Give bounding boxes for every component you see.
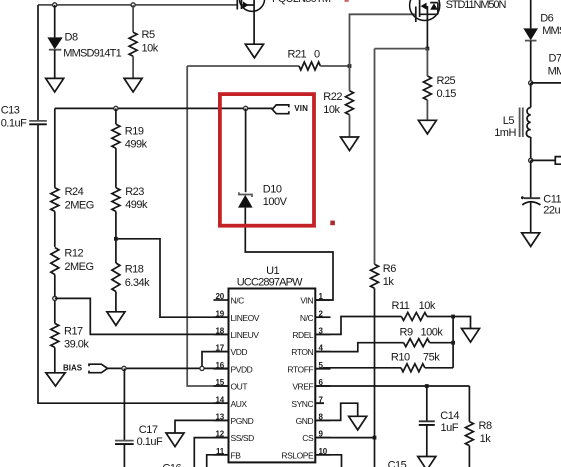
resistor R11 [392,300,436,321]
svg-text:19: 19 [216,309,225,318]
svg-text:D10: D10 [263,183,282,195]
node R11 right [451,315,455,319]
node output [529,158,533,162]
label Q1 (clipped) [272,0,331,5]
output tag (clipped) [555,157,561,165]
resistor R6 [371,263,397,288]
wire R22 to ground [349,115,351,137]
wire R19-R23 [115,148,117,188]
wire OUT to R21 [187,65,299,67]
wire R5 to ground [132,56,134,78]
svg-text:R9: R9 [400,326,413,338]
svg-text:C13: C13 [1,105,20,117]
svg-text:D8: D8 [65,31,78,43]
node D10 top [244,106,248,110]
svg-text:RSLOPE: RSLOPE [281,450,314,460]
wire R8 drop [468,386,470,422]
wire R21 to node [320,65,349,67]
wire R5 drop [132,5,134,32]
svg-text:L5: L5 [503,115,515,127]
capacitor C11 [521,193,561,216]
ground Q1 [245,44,263,58]
resistor R22 [323,91,353,116]
wire node to C11 [530,160,532,198]
resistor R8 [465,420,492,446]
svg-text:C11: C11 [543,193,561,205]
node R9 right [451,341,455,345]
wire C11 to ground [530,203,532,233]
svg-text:R6: R6 [383,263,396,275]
svg-text:1mH: 1mH [494,127,516,139]
svg-text:U1: U1 [266,265,279,277]
resistor R17 [51,323,90,350]
svg-text:R19: R19 [125,126,144,138]
wire OUT column [187,66,228,386]
wire C17 drop [123,368,125,440]
svg-text:VIN: VIN [300,296,313,306]
wire L5 to node [530,137,532,160]
svg-text:R10: R10 [391,351,410,363]
node LINEOV [114,237,118,241]
svg-text:17: 17 [216,344,225,353]
svg-text:R11: R11 [392,300,410,312]
wire Q1 source down [253,11,255,44]
wire SYNC stub [315,402,324,404]
ground R17 [46,373,65,386]
wire VREF row [315,385,469,387]
svg-text:499k: 499k [125,199,148,211]
svg-text:AUX: AUX [231,399,248,409]
resistor R23 [112,186,148,212]
svg-text:0: 0 [314,49,320,61]
svg-text:UCC2897APW: UCC2897APW [237,277,303,289]
svg-text:R18: R18 [125,264,144,276]
svg-text:N/C: N/C [300,313,314,323]
wire D10 to VIN pin [245,208,333,300]
node Q2 source [426,47,430,51]
svg-text:VREF: VREF [292,382,313,392]
wire C14 to ground [426,425,428,457]
resistor R19 [112,124,148,150]
svg-text:VIN: VIN [294,104,308,113]
svg-text:22uF: 22uF [543,205,561,217]
wire R11 right [427,316,453,318]
wire R23-R18 [115,211,117,263]
svg-text:PGND: PGND [231,416,254,426]
svg-text:SS/SD: SS/SD [231,433,255,443]
wire RDEL jog [315,317,401,335]
resistor R12 [51,248,94,275]
svg-text:PVDD: PVDD [231,364,253,374]
diode D10 zener [238,183,288,208]
capacitor C13 [1,105,47,130]
wire FB [207,455,229,467]
svg-text:FB: FB [231,450,242,460]
wire BIAS to PVDD [108,367,229,369]
svg-text:MMSD914T1: MMSD914T1 [63,48,121,60]
svg-text:RTON: RTON [291,347,313,357]
diode D8 [47,31,121,59]
svg-text:MMSD914T1: MMSD914T1 [542,25,561,37]
svg-text:R25: R25 [437,75,456,87]
wire PGND [175,420,229,433]
wire junction column [452,317,454,368]
red square marker [330,221,335,226]
svg-text:10k: 10k [142,43,159,55]
wire R12-R17 [54,275,56,324]
svg-text:GND: GND [296,416,314,426]
ground R5 [124,78,142,92]
resistor R18 [112,263,150,292]
wire R10 right [425,367,453,369]
wire CS [315,437,374,439]
svg-text:FQU2N50TM: FQU2N50TM [272,0,331,5]
svg-text:R24: R24 [65,186,84,198]
svg-text:11: 11 [216,447,225,456]
node LINEUV [53,296,57,300]
svg-text:100k: 100k [421,326,444,338]
resistor R24 [51,186,94,211]
svg-text:0.15: 0.15 [437,88,457,100]
svg-text:75k: 75k [423,351,440,363]
label D7 [548,53,561,78]
wire to output tag [531,159,556,161]
svg-text:18: 18 [216,327,225,336]
node BIAS [122,366,126,370]
svg-text:SYNC: SYNC [291,399,313,409]
svg-text:D7: D7 [549,53,561,65]
resistor R10 [391,351,440,372]
svg-text:1uF: 1uF [441,422,459,434]
node VDD-PVDD [200,366,204,370]
ground R22 [341,137,359,151]
svg-text:C16: C16 [162,462,181,467]
wire LINEUV [55,298,229,334]
label C16 (clipped) [162,462,181,467]
wire D7 branch [531,82,561,84]
wire gate rail Q2 [350,14,416,66]
svg-text:10k: 10k [323,104,340,116]
svg-text:16: 16 [216,361,225,370]
svg-text:6.34k: 6.34k [125,277,150,289]
wire C14 drop [426,386,428,421]
svg-text:13: 13 [216,413,225,422]
wire D8 to ground [54,50,56,79]
ground PGND [166,433,184,447]
wire R17 to ground [54,347,56,372]
svg-text:RDEL: RDEL [292,330,314,340]
label C15 (clipped) [388,459,407,467]
node D7 branch [529,81,533,85]
wire R22 top [349,66,351,91]
wire R6 column [374,49,376,265]
op-amp U1 UCC2897APW box [229,265,316,462]
svg-text:STD11NM50N: STD11NM50N [446,0,507,11]
wire D8 drop [54,5,56,38]
transistor Q2 STD11NM50N [410,0,440,49]
svg-text:VDD: VDD [231,347,248,357]
red highlight box [220,94,314,226]
ground R18 [107,312,125,326]
resistor R21 [288,49,321,71]
transistor Q1 FQU2N50TM [237,0,264,11]
ground C14 (clipped) [418,457,436,467]
node CS [373,436,377,440]
node R5 top [131,3,135,7]
U1 pins [214,292,331,460]
wire C13 column lower to AUX [38,124,229,403]
wire RSLOPE [315,455,341,467]
wire top rail [38,4,237,6]
wire SS/SD [194,438,228,467]
svg-text:OUT: OUT [231,382,248,392]
wire to RDEL ground [453,317,470,329]
svg-text:R23: R23 [125,186,144,198]
ground R25 [418,120,436,134]
svg-text:D6: D6 [540,13,553,25]
label Q2 [446,0,507,11]
wire D6 to node [530,41,532,83]
svg-text:15: 15 [216,378,225,387]
svg-text:CS: CS [302,433,314,443]
node C14 top [425,384,429,388]
wire D10 drop [245,108,247,192]
ground C11 [522,233,540,247]
svg-text:0.1uF: 0.1uF [1,118,27,130]
wire R25 to ground [426,100,428,120]
wire LINEOV [116,239,229,317]
ground RDEL net [462,329,480,343]
svg-text:100V: 100V [263,196,288,208]
wire node to L5 [530,83,532,108]
svg-text:C14: C14 [440,410,459,422]
ground GND pin [349,416,367,430]
svg-text:1k: 1k [383,276,395,288]
svg-text:C17: C17 [139,424,158,436]
wire RTON jog [315,343,403,352]
svg-text:R12: R12 [64,248,83,260]
svg-text:10k: 10k [419,300,436,312]
ground D8 [46,78,64,92]
node R19 top [114,106,118,110]
svg-text:BIAS: BIAS [63,363,83,372]
svg-text:C15: C15 [388,459,407,467]
svg-text:10: 10 [319,447,328,456]
wire VDD jog [202,352,229,369]
svg-text:20: 20 [216,292,225,301]
wire right column top [530,0,532,28]
wire RTOFF row [315,367,401,370]
wire Q2 to R25 [426,49,428,76]
resistor R9 [400,326,444,346]
resistor R5 [129,29,159,56]
svg-text:R17: R17 [64,325,83,337]
wire R6 column lower [374,288,376,467]
svg-text:14: 14 [216,395,225,404]
svg-text:MMSD914T1: MMSD914T1 [548,66,561,78]
net tag VIN [272,104,308,114]
red mark top [345,0,349,2]
resistor R25 [423,75,456,100]
svg-text:N/C: N/C [231,296,245,306]
wire R18 to ground [115,292,117,312]
capacitor C17 [115,424,163,448]
svg-text:2MEG: 2MEG [65,199,94,211]
wire R9 right [430,342,454,344]
node D8 top [53,3,57,7]
diode D6 [523,13,561,41]
wire GND jog [315,403,357,420]
svg-text:R21: R21 [288,49,307,61]
wire R19 top seg [115,108,117,124]
capacitor C14 [419,410,460,434]
svg-text:R22: R22 [323,91,342,103]
svg-text:2MEG: 2MEG [64,261,93,273]
wire R24 top [54,108,56,187]
net tag BIAS [63,363,108,372]
svg-text:LINEOV: LINEOV [231,313,260,323]
wire C17 down [123,444,125,467]
svg-text:1k: 1k [480,433,492,445]
wire R24-R12 [54,211,56,247]
svg-text:0.1uF: 0.1uF [137,436,163,448]
wire C13 column upper [37,5,39,121]
inductor L5 [494,108,531,140]
node R21 right [348,64,352,68]
svg-text:RTOFF: RTOFF [287,364,313,374]
wire VIN row [55,107,272,109]
svg-text:12: 12 [216,430,225,439]
wire Q2 source to R6 col [375,48,428,50]
svg-text:39.0k: 39.0k [64,338,89,350]
svg-text:R5: R5 [142,29,155,41]
svg-text:LINEUV: LINEUV [231,330,260,340]
wire R8 down [468,446,470,467]
svg-text:499k: 499k [125,139,148,151]
svg-text:R8: R8 [479,420,492,432]
